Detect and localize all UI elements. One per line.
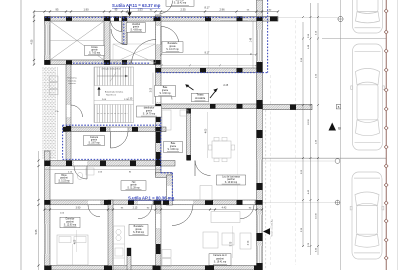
svg-text:S. 14.79 mp: S. 14.79 mp [143, 114, 156, 116]
svg-text:2.05: 2.05 [151, 87, 153, 92]
svg-text:parchet: parchet [60, 177, 68, 180]
wall V5 jog [156, 173, 173, 206]
AP1 boundary blue dash [63, 110, 173, 200]
svg-text:17trepte 13.5x27cm: 17trepte 13.5x27cm [101, 68, 121, 71]
wall V5 central [156, 15, 162, 175]
AP11 boundary blue dash [45, 0, 268, 73]
svg-text:S. 7.65 mp: S. 7.65 mp [89, 52, 101, 54]
svg-text:Dormitor: Dormitor [176, 0, 185, 2]
svg-text:5.75: 5.75 [230, 241, 232, 246]
svg-text:parchet: parchet [216, 257, 224, 260]
dimension line left lower [35, 151, 40, 270]
slope arrow [185, 84, 193, 90]
car 2 [351, 44, 385, 150]
svg-text:Balustrada metalica: Balustrada metalica [105, 91, 124, 94]
label hol [121, 181, 146, 191]
label vestibul [127, 23, 146, 33]
staircase [94, 67, 134, 123]
svg-text:S. 13.90 mp: S. 13.90 mp [225, 182, 238, 184]
door arc Wa camera [111, 132, 129, 149]
walkway edge line [57, 67, 59, 161]
window V1a [45, 25, 50, 55]
svg-text:1.53: 1.53 [137, 8, 143, 12]
text cota 045 [223, 85, 229, 87]
parking divider top [322, 38, 386, 40]
red property boundary [384, 0, 388, 270]
door arc kitchen V5 [161, 27, 179, 45]
svg-text:8.17: 8.17 [205, 52, 210, 55]
svg-text:4.05: 4.05 [30, 39, 33, 44]
grid faint x208 [208, 21, 210, 104]
door opening Wa [110, 128, 128, 132]
dim inner 4.05b [74, 230, 76, 252]
label terasa circulabila [192, 93, 209, 102]
vegetation strip [43, 67, 57, 159]
svg-text:gresie: gresie [169, 45, 176, 48]
entry arrow top [127, 6, 131, 16]
svg-text:H=0.90 cm: H=0.90 cm [106, 94, 116, 96]
extension line y203 [262, 202, 335, 204]
exterior steps [50, 76, 59, 95]
window V8 living2 [257, 246, 262, 263]
label birou [55, 174, 73, 184]
property line left [20, 0, 22, 270]
wall top exterior H1 [45, 17, 279, 22]
svg-text:exterior: exterior [68, 82, 76, 85]
dim line kitchen lower [161, 64, 257, 66]
svg-text:gresie: gresie [146, 109, 153, 112]
svg-text:S. 3.30 mp: S. 3.30 mp [159, 93, 171, 95]
door arc H5 living [240, 205, 254, 219]
dimension line left [30, 12, 35, 66]
dim inner 3.73 [248, 240, 250, 245]
bath fixtures bottom [162, 250, 171, 267]
wall H6 bottom exterior [45, 266, 263, 270]
svg-text:Birou: Birou [61, 174, 67, 177]
svg-text:4.05: 4.05 [74, 239, 76, 244]
svg-text:2.15: 2.15 [133, 207, 138, 210]
label dormitor top [166, 0, 194, 6]
kitchen counter [114, 226, 125, 268]
svg-text:Geam cu ochi Ag: Geam cu ochi Ag [271, 219, 274, 236]
dim inner 5.75 [230, 226, 232, 258]
coffee table [222, 233, 234, 245]
wall V1b bottom left [45, 151, 51, 270]
wall H4 right extension [263, 105, 313, 110]
svg-text:gresie: gresie [133, 26, 140, 29]
dim texts right [301, 30, 318, 252]
wall H3 kitchen bottom [156, 68, 263, 73]
wall V5 lower [156, 200, 162, 270]
overhang dashed right [265, 110, 267, 270]
window V8 dining [257, 160, 262, 183]
svg-text:gresie: gresie [130, 184, 137, 187]
text platforma [67, 77, 77, 86]
svg-text:S.utila AP.1 = 80.36 mp: S.utila AP.1 = 80.36 mp [128, 196, 175, 201]
label baie mid [155, 86, 176, 97]
dim inner 2.05 [151, 73, 153, 104]
grid dashed x295 [295, 20, 297, 265]
svg-text:S. 13.47 mp: S. 13.47 mp [166, 49, 179, 51]
door arc V5 mid [161, 89, 172, 100]
svg-text:S. 12.90 mp: S. 12.90 mp [64, 224, 77, 226]
door arc vestibule [111, 29, 127, 45]
window V1b bedroom [45, 224, 50, 254]
door arc V2 platform [71, 105, 83, 117]
north arrow [210, 89, 218, 99]
svg-text:Baie: Baie [171, 143, 176, 145]
living sofa [203, 212, 251, 250]
svg-text:Terasa: Terasa [197, 94, 205, 97]
svg-text:Intrare: Intrare [91, 46, 98, 49]
door arc entry top [111, 21, 123, 32]
wall V3a terrace right [104, 17, 110, 65]
wall V3b bottom [108, 200, 113, 270]
dining table [208, 137, 235, 162]
door arc dormitor top [160, 1, 173, 14]
svg-text:S. 4.69 mp: S. 4.69 mp [130, 29, 142, 31]
sofa dining [200, 186, 212, 201]
parking top edge line [278, 17, 340, 19]
bath fixtures top [162, 110, 188, 150]
svg-text:S. 15.42 mp: S. 15.42 mp [174, 3, 187, 5]
wall column blocks [45, 17, 297, 270]
grid bubble B top [338, 16, 343, 21]
window V8 top [257, 30, 262, 61]
svg-text:circulabila: circulabila [195, 97, 206, 100]
entry X pattern [113, 44, 156, 63]
stairs up arrow [97, 87, 100, 96]
svg-text:betonata: betonata [68, 79, 77, 82]
door arc H5 hall [172, 205, 193, 226]
dimension line top [33, 10, 279, 16]
terrace X pattern [50, 21, 104, 60]
svg-text:8.17: 8.17 [204, 5, 210, 9]
door opening V2 [67, 105, 71, 117]
svg-text:S. 3.96 mp: S. 3.96 mp [167, 149, 179, 151]
label camera [84, 136, 105, 146]
wall V8 right exterior [257, 0, 263, 270]
wall H2 under terrace [45, 60, 162, 65]
svg-text:1.35: 1.35 [128, 97, 133, 100]
door arc H5 bedroom [88, 205, 100, 217]
label dormitor bottom [60, 217, 80, 228]
label distribuitor [137, 106, 162, 117]
wall H4 middle [156, 104, 263, 109]
text AP1 area [128, 196, 175, 201]
svg-text:S.utila AP.11 = 63.37 mp: S.utila AP.11 = 63.37 mp [112, 3, 161, 8]
svg-text:10.30: 10.30 [316, 212, 318, 218]
marker circle mid [335, 159, 340, 164]
svg-text:Loc de luat masa: Loc de luat masa [222, 175, 240, 178]
site line x340 [340, 0, 342, 270]
svg-text:gresie: gresie [162, 89, 169, 92]
text pla [55, 111, 59, 113]
window H1 right [220, 17, 248, 21]
svg-text:5.05: 5.05 [35, 229, 38, 234]
svg-text:S. 8.90 mp: S. 8.90 mp [133, 232, 145, 234]
door arc Wb birou [74, 166, 87, 179]
label loc de luat masa [217, 175, 246, 185]
dim inner 1.35 [128, 97, 133, 100]
wall V2 middle left [66, 64, 71, 161]
svg-text:Bucatarie: Bucatarie [134, 225, 144, 228]
svg-text:4.43: 4.43 [222, 207, 227, 210]
door arc H5 kitchen [138, 205, 152, 219]
text AP11 area [112, 3, 161, 8]
label camera de zi [209, 254, 231, 266]
svg-text:-0.45: -0.45 [223, 85, 229, 87]
svg-text:2.35: 2.35 [180, 8, 186, 12]
door opening Wb [74, 161, 87, 166]
svg-text:3.73: 3.73 [248, 240, 250, 245]
grid dashed x270 [270, 75, 272, 265]
dim line camera row [45, 170, 161, 174]
svg-text:parchet: parchet [227, 178, 235, 181]
marker square [336, 105, 340, 110]
svg-text:Camera: Camera [90, 136, 99, 139]
label bucatarie top [162, 42, 183, 53]
grid faint x237 [237, 21, 239, 200]
door opening H2 main [131, 61, 156, 65]
car 3 [350, 172, 384, 259]
svg-text:gresie: gresie [170, 145, 177, 148]
svg-text:Camera de zi: Camera de zi [213, 254, 227, 257]
door openings H5 [88, 201, 254, 205]
bed [57, 235, 88, 265]
svg-text:1.90: 1.90 [83, 8, 89, 12]
svg-text:Vestibul: Vestibul [132, 23, 141, 26]
dimension line rooms bottom [44, 207, 264, 215]
section triangle B [329, 123, 342, 131]
svg-text:4.60: 4.60 [205, 128, 207, 133]
window V8 living1 [257, 215, 262, 233]
wall V1a terrace left [45, 17, 51, 65]
kitchen closet stub [127, 248, 131, 270]
svg-text:gresie: gresie [91, 139, 98, 142]
svg-text:2.96: 2.96 [219, 8, 225, 12]
stairs text [101, 68, 124, 97]
dim inner 4.60 [205, 112, 207, 158]
car 1 (top, partial) [351, 0, 385, 33]
dimension lines right [302, 3, 319, 255]
svg-text:S. 19.41 mp: S. 19.41 mp [214, 262, 227, 264]
svg-text:Bucatarie: Bucatarie [168, 42, 178, 45]
svg-text:S. 5.33 mp: S. 5.33 mp [58, 180, 70, 182]
svg-text:3.90: 3.90 [76, 207, 81, 210]
door arc main entrance [132, 40, 157, 64]
wall H5 living top [45, 200, 263, 205]
door opening H1 entry [111, 17, 122, 21]
wc fixtures left [77, 168, 94, 180]
svg-text:Dormitor: Dormitor [66, 218, 75, 221]
svg-text:Platforma: Platforma [67, 77, 77, 80]
svg-text:gresie: gresie [135, 228, 142, 231]
text geam rotated [271, 219, 274, 236]
stairs dim row [94, 99, 134, 101]
entrance arrow living [263, 228, 270, 235]
svg-text:18.00: 18.00 [308, 118, 310, 124]
label bucatarie bottom [129, 225, 148, 236]
wall Wb band bottom [45, 161, 176, 167]
svg-text:S. 11.28 mp: S. 11.28 mp [127, 187, 140, 189]
svg-text:Baie: Baie [163, 87, 168, 89]
label intrare [85, 46, 105, 56]
dimension line kitchen [160, 52, 257, 56]
site line right edge [397, 0, 399, 270]
parking divider mid [262, 158, 386, 161]
wall V4 vestibule [122, 17, 127, 45]
svg-text:gresie: gresie [91, 49, 98, 52]
svg-text:parchet: parchet [66, 221, 74, 224]
label baie 2 [164, 142, 183, 153]
door arc bathroom V5b [195, 161, 211, 177]
svg-text:1.48: 1.48 [251, 37, 253, 42]
dim inner 1.48 [251, 21, 253, 68]
wall V5b bathroom [187, 109, 191, 161]
svg-text:distribuitor: distribuitor [144, 106, 155, 109]
dim texts top [56, 5, 272, 11]
openings V5 [156, 26, 172, 228]
svg-text:S. 3.87 mp: S. 3.87 mp [88, 142, 100, 144]
marker circle low [335, 200, 340, 205]
wall Wa band top [63, 127, 166, 132]
